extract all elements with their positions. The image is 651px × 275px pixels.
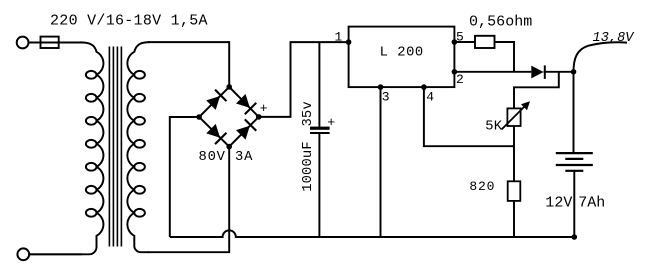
- svg-text:13,8V: 13,8V: [593, 31, 636, 46]
- bridge rectifier diamond: [199, 87, 259, 147]
- capacitor C1 wire top: [318, 42, 320, 127]
- svg-text:L 200: L 200: [380, 45, 424, 60]
- wire resistor R1 to pin 2 line: [495, 42, 515, 72]
- svg-text:1000uF: 1000uF: [301, 141, 316, 192]
- wire J1 to fuse and through to transformer: [29, 42, 83, 44]
- resistor R2 820: [508, 181, 521, 201]
- diode D3 (bridge bottom-left): [205, 123, 226, 144]
- resistor R1 0,56ohm: [475, 36, 495, 48]
- node battery / rail junction: [572, 234, 578, 240]
- wire 820 to negative rail: [513, 201, 515, 237]
- node pin 3: [378, 84, 384, 90]
- svg-text:3: 3: [382, 89, 390, 104]
- svg-text:2: 2: [456, 72, 464, 87]
- diode D1 (bridge top-left): [205, 90, 226, 111]
- wire pin 2 to diode D5: [454, 71, 531, 73]
- node pin 1: [346, 39, 352, 45]
- node bridge left: [196, 114, 202, 120]
- node output junction: [571, 69, 577, 75]
- svg-text:12V: 12V: [545, 194, 572, 211]
- svg-text:820: 820: [469, 179, 495, 194]
- wire J2 to primary bottom: [29, 253, 82, 255]
- wire pin 5 to resistor R1: [454, 41, 475, 43]
- terminal J1 (AC input top): [17, 37, 29, 49]
- wire pot to 820: [513, 126, 515, 181]
- wire secondary bottom to bridge bottom: [148, 149, 229, 252]
- node bridge top: [226, 84, 232, 90]
- negative rail with crossover hop: [170, 230, 575, 237]
- capacitor C1 plates: [310, 127, 330, 130]
- fuse F1: [41, 37, 59, 48]
- svg-text:35v: 35v: [301, 101, 316, 126]
- svg-text:1: 1: [335, 29, 343, 44]
- wire battery to negative rail: [573, 171, 575, 237]
- node bridge right: [256, 114, 262, 120]
- wire output curve to 13,8V: [574, 42, 628, 72]
- svg-text:0,56ohm: 0,56ohm: [469, 14, 532, 31]
- svg-text:80V: 80V: [199, 150, 226, 165]
- wire output node down to battery: [573, 72, 575, 153]
- svg-text:220 V/16-18V 1,5A: 220 V/16-18V 1,5A: [50, 13, 208, 30]
- wire diode D5 to output node: [544, 71, 574, 73]
- node bridge bottom: [226, 144, 232, 150]
- node pin 5: [452, 39, 458, 45]
- svg-text:+: +: [260, 101, 268, 116]
- transformer T1 primary winding: [29, 42, 104, 254]
- diode D5: [531, 66, 543, 79]
- svg-text:+: +: [327, 115, 335, 130]
- battery BT1 plates: [556, 153, 593, 165]
- wire pin 3 to negative rail: [380, 87, 382, 237]
- diode D2 (bridge top-right): [235, 93, 256, 114]
- wire bridge plus up to V+ rail into pin 1: [259, 42, 349, 117]
- wire bridge minus to negative rail: [170, 117, 199, 237]
- wire pin 4 to pot/820 junction: [424, 87, 514, 146]
- svg-text:3A: 3A: [235, 150, 253, 165]
- potentiometer P1 5K: [507, 108, 520, 126]
- svg-text:5K: 5K: [485, 119, 502, 134]
- op-amp U1 L200 regulator box: [349, 27, 455, 88]
- capacitor C1 wire bottom: [318, 133, 320, 237]
- diode D4 (bridge bottom-right): [235, 119, 256, 140]
- wire tap to 5K pot: [514, 72, 559, 109]
- node pin 4: [421, 84, 427, 90]
- node pin 2: [452, 69, 458, 75]
- wire secondary top to bridge top: [148, 42, 229, 84]
- transformer T1 secondary winding: [127, 42, 150, 252]
- svg-text:4: 4: [426, 89, 434, 104]
- svg-text:7Ah: 7Ah: [578, 194, 605, 211]
- transformer T1 core: [109, 47, 121, 247]
- terminal J2 (AC input bottom): [17, 248, 29, 260]
